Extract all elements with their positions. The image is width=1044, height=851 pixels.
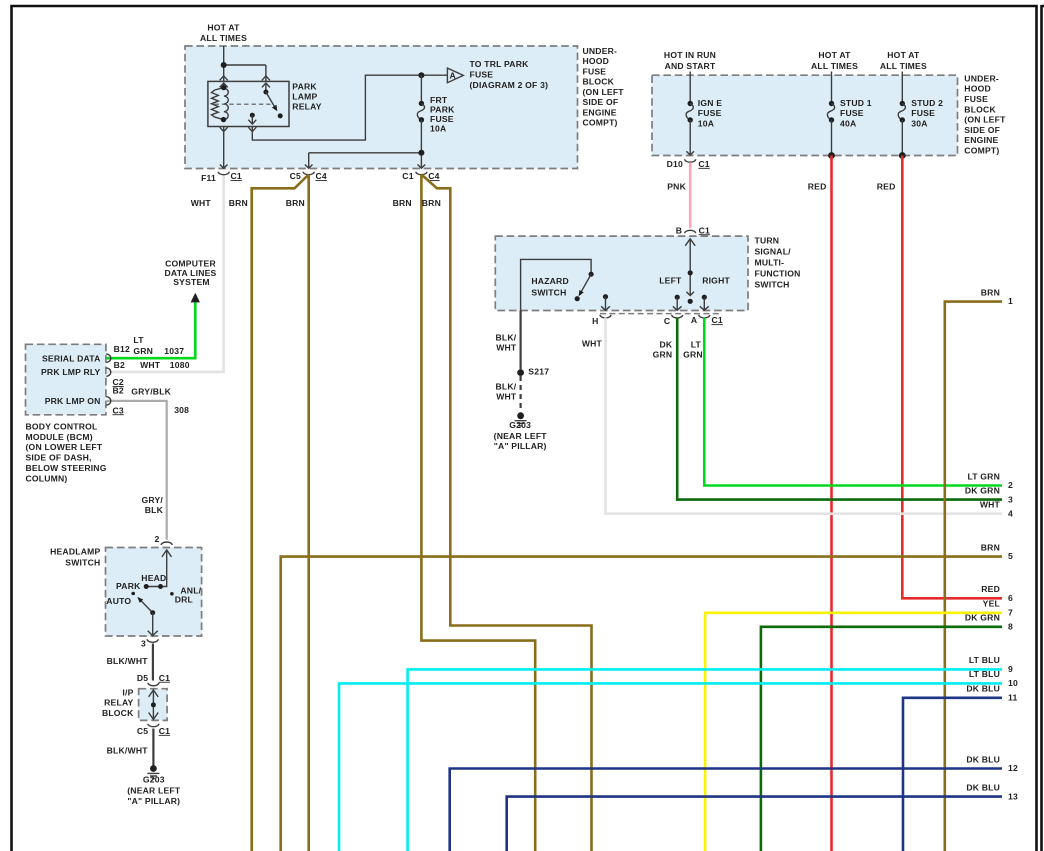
- relay switch arm arrowhead: [272, 105, 277, 112]
- svg-text:BRN: BRN: [422, 198, 441, 208]
- pin arrow into headlamp switch: [162, 550, 172, 557]
- svg-text:I/P: I/P: [122, 687, 133, 697]
- hazard switch contact node: [589, 272, 594, 277]
- svg-text:2: 2: [155, 534, 160, 544]
- svg-text:DK BLU: DK BLU: [966, 754, 1000, 764]
- dk grn wire C to row 3: [677, 318, 1002, 500]
- svg-text:2: 2: [1008, 480, 1013, 490]
- wire H stub down: [605, 297, 607, 310]
- svg-text:WHT: WHT: [980, 500, 1001, 510]
- svg-text:DK BLU: DK BLU: [966, 684, 1000, 694]
- hazard switch arm: [581, 274, 591, 292]
- wire stud 2 feed: [901, 72, 903, 104]
- right contact node A: [702, 295, 707, 300]
- svg-text:LT BLU: LT BLU: [969, 669, 1000, 679]
- I/P relay block box: [139, 689, 168, 721]
- pin arrow inside relay coil pin: [220, 83, 228, 88]
- svg-text:HOOD: HOOD: [583, 56, 610, 66]
- ign e fuse element: [688, 101, 693, 106]
- wht wire H to row 4: [606, 318, 1003, 514]
- connector terminal 2 headlamp switch: [161, 542, 172, 545]
- arrow at F11: [220, 165, 228, 169]
- frt park fuse element: [419, 101, 424, 106]
- svg-text:COLUMN): COLUMN): [26, 473, 68, 483]
- hazard switch throw contact: [575, 296, 580, 301]
- relay coil zigzag winding: [212, 88, 224, 120]
- pin arrow above relay switch pin: [262, 76, 270, 80]
- svg-text:D10: D10: [667, 159, 683, 169]
- svg-text:WHT: WHT: [140, 360, 161, 370]
- headlamp head contact node: [158, 584, 163, 589]
- svg-text:C: C: [664, 316, 670, 326]
- svg-text:1037: 1037: [164, 346, 184, 356]
- relay switch throw contact: [278, 113, 283, 118]
- node stud 1 red junction: [828, 152, 835, 159]
- svg-text:"A" PILLAR): "A" PILLAR): [127, 796, 180, 806]
- svg-text:LEFT: LEFT: [659, 275, 682, 285]
- connector C5 C4: [303, 172, 314, 175]
- svg-text:SWITCH: SWITCH: [65, 558, 100, 568]
- svg-text:HOOD: HOOD: [964, 84, 991, 94]
- svg-text:12: 12: [1008, 763, 1018, 773]
- wire from HOT AT into relay: [224, 46, 266, 81]
- svg-text:(DIAGRAM 2 OF 3): (DIAGRAM 2 OF 3): [470, 80, 549, 90]
- turn signal pivot node: [688, 299, 693, 304]
- arrow at H: [601, 306, 610, 310]
- headlamp switch pivot node: [150, 610, 155, 615]
- svg-text:FUSE: FUSE: [430, 114, 454, 124]
- wire node to FRT PARK FUSE: [420, 75, 422, 103]
- headlamp switch arm arrowhead: [137, 597, 143, 603]
- svg-text:D5: D5: [137, 673, 148, 683]
- svg-text:YEL: YEL: [983, 599, 1000, 609]
- headlamp auto contact: [131, 592, 135, 596]
- connector D10 C1: [685, 159, 696, 162]
- arrow at A: [700, 306, 709, 310]
- svg-text:ENGINE: ENGINE: [964, 135, 998, 145]
- svg-text:PNK: PNK: [667, 182, 686, 192]
- relay common output contact: [250, 113, 255, 118]
- svg-text:BLK/WHT: BLK/WHT: [107, 746, 149, 756]
- wire stud 2 fuse to box edge: [901, 120, 903, 156]
- svg-text:B12: B12: [114, 344, 130, 354]
- connector H: [600, 315, 611, 318]
- red wire stud 1 down page: [830, 156, 833, 851]
- svg-text:ALL TIMES: ALL TIMES: [880, 61, 927, 71]
- wire 1 brn: [945, 302, 1002, 851]
- wire 10 lt blu: [339, 683, 1002, 851]
- svg-text:SERIAL DATA: SERIAL DATA: [42, 353, 101, 363]
- relay coil top node: [221, 85, 226, 90]
- svg-text:RELAY: RELAY: [292, 102, 321, 112]
- svg-text:SYSTEM: SYSTEM: [173, 277, 210, 287]
- svg-text:BELOW STEERING: BELOW STEERING: [26, 463, 107, 473]
- wire pivot to terminal 3: [152, 613, 154, 636]
- I/P relay block pass-through wire: [152, 690, 154, 720]
- arrow at C: [673, 306, 682, 310]
- connector C1 C4: [416, 172, 427, 175]
- pin arrow into I/P relay block: [149, 690, 159, 697]
- wire 9 lt blu: [408, 669, 1002, 851]
- svg-text:TO TRL PARK: TO TRL PARK: [470, 59, 530, 69]
- gry/blk wire 308 BCM C3 to headlamp switch: [107, 401, 167, 540]
- pin arrow inside relay common pin: [248, 115, 256, 124]
- wire 13 dk blu: [507, 797, 1002, 851]
- red wire stud 2 to row 6: [902, 156, 1002, 599]
- blk/wht wire C5 to ground: [152, 729, 154, 767]
- headlamp park contact node: [144, 584, 149, 589]
- svg-text:IGN E: IGN E: [698, 98, 722, 108]
- wire relay coil to F11: [223, 132, 225, 168]
- BCM pin bracket prk lmp rly: [106, 368, 111, 376]
- svg-text:UNDER-: UNDER-: [583, 46, 618, 56]
- headlamp switch arm: [141, 601, 153, 613]
- svg-text:GRY/BLK: GRY/BLK: [131, 387, 171, 397]
- svg-text:4: 4: [1008, 508, 1013, 518]
- svg-text:LAMP: LAMP: [292, 92, 317, 102]
- brn wire from C5 straight down to bottom: [307, 175, 310, 851]
- node stud 2 red junction: [899, 152, 906, 159]
- svg-text:FUSE: FUSE: [698, 108, 722, 118]
- svg-text:RELAY: RELAY: [104, 698, 133, 708]
- wire C contact down: [676, 297, 678, 310]
- svg-text:SIDE OF DASH,: SIDE OF DASH,: [26, 453, 92, 463]
- turn signal common feed line: [689, 239, 691, 295]
- lt grn wire A to row 2: [704, 318, 1002, 486]
- svg-text:"A" PILLAR): "A" PILLAR): [494, 441, 547, 451]
- blk/wht hazard wire to S217: [519, 311, 521, 370]
- BCM pin bracket serial data: [106, 354, 111, 362]
- svg-text:COMPT): COMPT): [964, 146, 999, 156]
- connector line C1 dashed: [600, 313, 722, 315]
- svg-text:STUD 1: STUD 1: [840, 98, 872, 108]
- svg-text:BLOCK: BLOCK: [964, 104, 996, 114]
- relay switch arm: [266, 92, 275, 108]
- BCM pin bracket prk lmp on: [106, 397, 111, 405]
- svg-text:C5: C5: [290, 171, 301, 181]
- svg-text:BLOCK: BLOCK: [583, 77, 615, 87]
- svg-text:GRN: GRN: [683, 350, 703, 360]
- underhood fuse block box (right): [652, 75, 958, 155]
- pin arrow out of I/P relay block: [149, 713, 159, 720]
- svg-text:10: 10: [1008, 678, 1018, 688]
- svg-text:ALL TIMES: ALL TIMES: [200, 33, 247, 43]
- pin arrow into turn signal switch: [685, 239, 695, 246]
- connector C5 C1: [148, 724, 159, 727]
- svg-text:DK BLU: DK BLU: [966, 782, 1000, 792]
- blk/wht wire 3 to D5: [152, 644, 154, 681]
- wire stud 1 fuse to box edge: [831, 120, 833, 156]
- svg-text:B2: B2: [114, 360, 125, 370]
- svg-text:BRN: BRN: [286, 198, 305, 208]
- svg-text:SIDE OF: SIDE OF: [583, 97, 619, 107]
- svg-text:PRK LMP RLY: PRK LMP RLY: [41, 367, 101, 377]
- svg-text:MODULE (BCM): MODULE (BCM): [26, 432, 93, 442]
- svg-text:BODY CONTROL: BODY CONTROL: [26, 421, 98, 431]
- svg-text:HOT AT: HOT AT: [207, 22, 240, 32]
- svg-text:ENGINE: ENGINE: [583, 107, 617, 117]
- wht wire F11 to BCM B2: [107, 175, 224, 372]
- svg-text:308: 308: [174, 405, 189, 415]
- svg-text:PRK LMP ON: PRK LMP ON: [45, 396, 101, 406]
- svg-text:G203: G203: [143, 775, 165, 785]
- connector F11 C1: [218, 172, 229, 175]
- svg-text:DK: DK: [659, 340, 672, 350]
- svg-text:DK GRN: DK GRN: [965, 486, 1000, 496]
- svg-text:LT GRN: LT GRN: [967, 471, 1000, 481]
- wire fuse to C5/C1 split: [309, 120, 422, 168]
- svg-text:WHT: WHT: [496, 392, 517, 402]
- svg-text:1: 1: [1008, 296, 1013, 306]
- svg-text:UNDER-: UNDER-: [964, 73, 999, 83]
- svg-text:BLK/WHT: BLK/WHT: [107, 656, 149, 666]
- svg-text:13: 13: [1008, 791, 1018, 801]
- svg-text:F11: F11: [201, 173, 216, 183]
- headlamp anl/drl contact: [170, 592, 174, 596]
- wire ign e feed: [689, 72, 691, 104]
- node junction at relay feed: [221, 62, 227, 68]
- svg-text:1080: 1080: [170, 360, 190, 370]
- svg-text:BRN: BRN: [229, 198, 248, 208]
- svg-text:DK GRN: DK GRN: [965, 613, 1000, 623]
- svg-text:G203: G203: [509, 420, 531, 430]
- svg-text:BRN: BRN: [981, 287, 1000, 297]
- lt grn wire 1037 serial data: [107, 302, 196, 359]
- svg-text:WHT: WHT: [496, 342, 517, 352]
- svg-text:RED: RED: [808, 182, 827, 192]
- node on common feed: [688, 270, 693, 275]
- svg-text:PARK: PARK: [430, 105, 455, 115]
- svg-text:SWITCH: SWITCH: [755, 280, 790, 290]
- arrowhead on common feed: [686, 292, 694, 296]
- relay coil arc winding: [224, 88, 229, 119]
- hazard switch arm arrowhead: [579, 290, 584, 296]
- arrow at C1: [418, 165, 426, 169]
- wire ign e fuse to D10: [689, 120, 691, 155]
- svg-text:HEAD: HEAD: [141, 573, 166, 583]
- svg-text:3: 3: [1008, 494, 1013, 504]
- svg-text:(ON LOWER LEFT: (ON LOWER LEFT: [26, 442, 103, 452]
- svg-text:10A: 10A: [698, 119, 714, 129]
- svg-text:C1: C1: [712, 315, 723, 325]
- svg-text:C4: C4: [316, 171, 327, 181]
- body control module box: [26, 344, 106, 415]
- ground G203 hazard: [517, 412, 524, 419]
- stud 1 fuse element: [829, 101, 834, 106]
- svg-text:(ON LEFT: (ON LEFT: [964, 115, 1006, 125]
- svg-text:C1: C1: [698, 159, 709, 169]
- headlamp switch box: [106, 548, 202, 637]
- svg-text:ALL TIMES: ALL TIMES: [811, 61, 858, 71]
- arrow at C5: [305, 165, 313, 169]
- svg-text:STUD 2: STUD 2: [911, 98, 943, 108]
- turn signal / multi-function switch box: [495, 236, 748, 310]
- svg-text:FUSE: FUSE: [470, 70, 494, 80]
- relay switch fixed contact: [263, 90, 268, 95]
- svg-text:FUSE: FUSE: [911, 108, 935, 118]
- svg-text:LT: LT: [691, 340, 702, 350]
- pin arrow at headlamp exit: [148, 631, 158, 636]
- svg-text:HOT AT: HOT AT: [818, 50, 851, 60]
- pin arrow above relay coil pin: [220, 76, 228, 80]
- svg-text:40A: 40A: [840, 119, 856, 129]
- svg-text:6: 6: [1008, 593, 1013, 603]
- svg-text:30A: 30A: [911, 119, 927, 129]
- svg-text:FUSE: FUSE: [583, 66, 607, 76]
- wire 11 dk blu: [903, 698, 1002, 851]
- svg-text:FRT: FRT: [430, 95, 448, 105]
- svg-text:PARK: PARK: [116, 581, 141, 591]
- svg-text:11: 11: [1008, 693, 1018, 703]
- connector D5 C1: [148, 683, 159, 686]
- svg-text:C1: C1: [159, 673, 170, 683]
- svg-text:FUNCTION: FUNCTION: [755, 269, 801, 279]
- ground G203 headlamp: [150, 765, 157, 772]
- svg-text:SWITCH: SWITCH: [531, 288, 566, 298]
- svg-text:SIGNAL/: SIGNAL/: [755, 247, 792, 257]
- svg-text:H: H: [592, 316, 598, 326]
- wire 7 yel: [705, 613, 1002, 851]
- svg-text:3: 3: [141, 638, 146, 648]
- svg-text:AUTO: AUTO: [106, 596, 131, 606]
- pin arrow below relay coil pin: [220, 127, 228, 132]
- relay coil bottom node: [221, 117, 226, 122]
- svg-text:S217: S217: [528, 367, 549, 377]
- svg-text:BLOCK: BLOCK: [102, 708, 134, 718]
- splice S217: [517, 369, 524, 376]
- svg-text:B: B: [676, 225, 682, 235]
- svg-text:PARK: PARK: [292, 81, 317, 91]
- svg-text:BRN: BRN: [981, 542, 1000, 552]
- node at TRL park fuse tap: [418, 72, 424, 78]
- svg-text:C5: C5: [137, 726, 148, 736]
- svg-text:COMPT): COMPT): [583, 118, 618, 128]
- wire relay common to TRL fuse node: [252, 75, 447, 140]
- svg-text:RED: RED: [981, 584, 1000, 594]
- connector B C1: [685, 230, 696, 233]
- svg-text:FUSE: FUSE: [840, 108, 864, 118]
- svg-text:WHT: WHT: [191, 198, 212, 208]
- svg-text:C1: C1: [699, 225, 710, 235]
- svg-text:HAZARD: HAZARD: [531, 276, 568, 286]
- svg-text:BLK/: BLK/: [496, 382, 517, 392]
- wire A contact down: [703, 297, 705, 310]
- svg-text:C1: C1: [159, 726, 170, 736]
- svg-text:GRN: GRN: [133, 346, 153, 356]
- svg-text:A: A: [449, 71, 455, 81]
- svg-text:MULTI-: MULTI-: [755, 258, 785, 268]
- svg-text:GRY/: GRY/: [142, 495, 164, 505]
- svg-text:C4: C4: [428, 171, 439, 181]
- svg-text:BLK: BLK: [145, 505, 164, 515]
- H stub node: [603, 294, 608, 299]
- svg-text:BLK/: BLK/: [496, 332, 517, 342]
- svg-text:7: 7: [1008, 607, 1013, 617]
- svg-text:(ON LEFT: (ON LEFT: [583, 87, 625, 97]
- connector A: [699, 315, 710, 318]
- svg-text:LT BLU: LT BLU: [969, 655, 1000, 665]
- underhood fuse block box (left): [185, 46, 578, 169]
- svg-text:B2: B2: [113, 385, 124, 395]
- svg-text:8: 8: [1008, 621, 1013, 631]
- svg-text:HOT AT: HOT AT: [887, 50, 920, 60]
- svg-text:RED: RED: [877, 182, 896, 192]
- pin arrow inside relay switch pin: [262, 83, 270, 92]
- svg-text:DRL: DRL: [175, 595, 193, 605]
- pnk wire D10 to B: [689, 163, 692, 229]
- svg-text:HOT IN RUN: HOT IN RUN: [664, 50, 716, 60]
- I/P relay block node: [151, 702, 156, 707]
- svg-text:FUSE: FUSE: [964, 94, 988, 104]
- svg-text:AND START: AND START: [665, 61, 716, 71]
- connector terminal 3: [147, 639, 158, 642]
- svg-text:C3: C3: [113, 405, 124, 415]
- svg-text:A: A: [691, 315, 697, 325]
- svg-text:5: 5: [1008, 551, 1013, 561]
- svg-text:RIGHT: RIGHT: [702, 275, 730, 285]
- relay mechanical linkage dashed: [215, 103, 271, 105]
- blk/wht dashed wire S217 to G203: [519, 376, 521, 412]
- arrow at D10: [686, 151, 694, 155]
- stud 2 fuse element: [900, 101, 905, 106]
- arrow to computer data lines system: [191, 293, 200, 303]
- svg-text:WHT: WHT: [582, 339, 603, 349]
- pin arrow below relay common pin: [248, 127, 256, 132]
- wire terminal 2 to park contact: [146, 550, 167, 587]
- svg-text:TURN: TURN: [755, 236, 780, 246]
- svg-text:LT: LT: [133, 335, 144, 345]
- svg-text:HEADLAMP: HEADLAMP: [50, 547, 100, 557]
- svg-text:(NEAR LEFT: (NEAR LEFT: [127, 786, 181, 796]
- svg-text:C1: C1: [231, 171, 242, 181]
- wire 5 brn: [281, 557, 1002, 851]
- brn wire from C1 down jog right at 640: [421, 175, 535, 851]
- svg-text:9: 9: [1008, 664, 1013, 674]
- park lamp relay U-box: [208, 81, 289, 126]
- svg-text:C1: C1: [402, 171, 413, 181]
- svg-text:BRN: BRN: [393, 198, 412, 208]
- hazard feed wire: [521, 259, 592, 310]
- node below frt park fuse: [418, 150, 424, 156]
- brn wire from C5 jog left down to bottom: [252, 175, 309, 851]
- svg-text:10A: 10A: [430, 124, 446, 134]
- wire stud 1 feed: [831, 72, 833, 104]
- left contact node C: [675, 295, 680, 300]
- wire 8 dk grn: [761, 627, 1002, 851]
- A arrow to TRL park fuse: [447, 68, 463, 83]
- svg-text:GRN: GRN: [653, 350, 673, 360]
- wire 12 dk blu: [450, 769, 1002, 851]
- connector C: [672, 315, 683, 318]
- svg-text:(NEAR LEFT: (NEAR LEFT: [494, 431, 548, 441]
- svg-text:SIDE OF: SIDE OF: [964, 125, 1000, 135]
- brn wire from C1 jog right down at 625: [421, 175, 591, 851]
